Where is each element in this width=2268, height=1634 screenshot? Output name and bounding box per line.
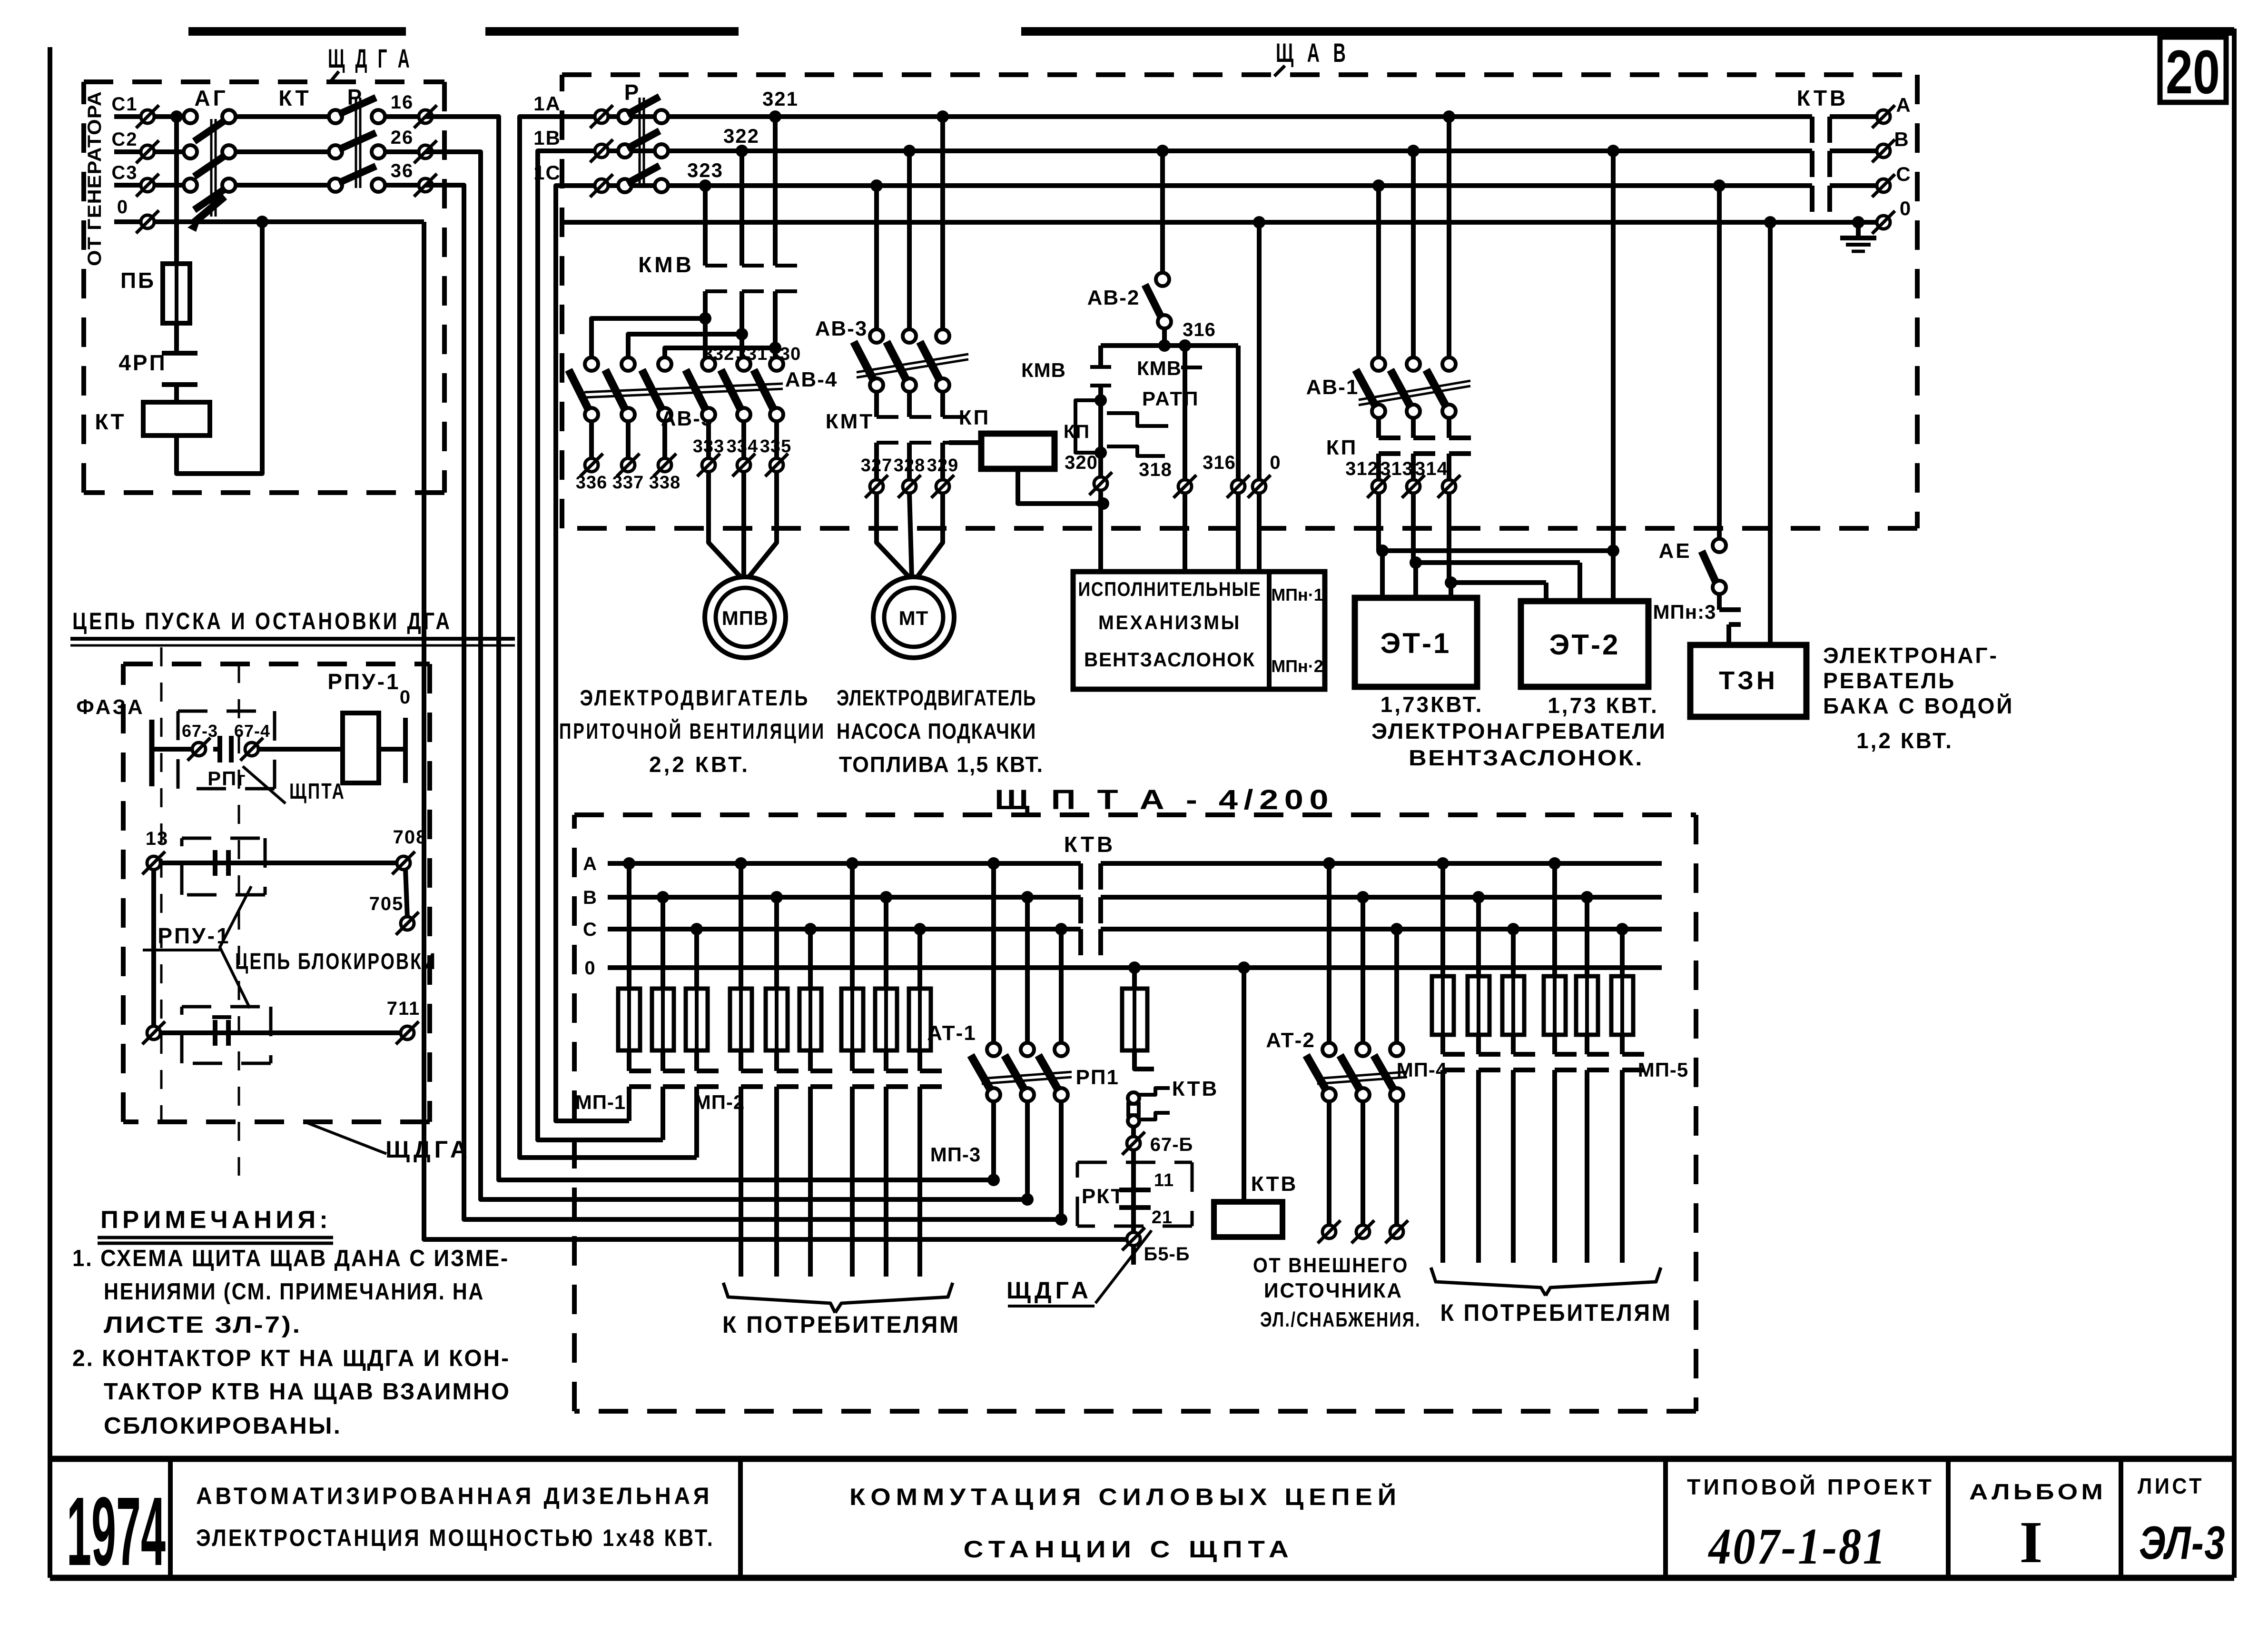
svg-text:АВ-1: АВ-1 [1306, 376, 1359, 399]
node fuse L6 [804, 923, 817, 935]
label 321 [762, 88, 799, 110]
breaker АВ-5 link [584, 384, 783, 397]
wire АВ-1 down b [1411, 151, 1416, 358]
label 323 [687, 159, 723, 181]
contact МП-45 pole 5 [1587, 1035, 1609, 1263]
wire АВ-4 out 1 [706, 421, 711, 458]
wire 0 to ТЗН [1764, 216, 1776, 645]
svg-text:337: 337 [612, 473, 644, 493]
svg-text:313: 313 [1380, 458, 1413, 479]
node АВ-1 c [1372, 179, 1385, 192]
svg-text:А: А [583, 853, 597, 874]
svg-text:1974: 1974 [67, 1477, 166, 1586]
label bus В [583, 887, 597, 908]
wire fuse R4 drop [1552, 863, 1557, 976]
wire 323 down [703, 186, 708, 266]
contactor Р pole 2 [329, 133, 385, 158]
wire 316 branch [1236, 346, 1241, 480]
wire АТ-2 a [1327, 863, 1331, 1043]
wire КТВ coil feed [1238, 961, 1250, 1202]
wire 1С bundle [556, 186, 629, 1121]
label 316 top [1183, 319, 1216, 340]
breaker АВ-1 pole 1 [1356, 357, 1385, 418]
title sheet no [2138, 1474, 2226, 1569]
wire 708 to 705 [405, 869, 407, 918]
switch АТ-2 pole 1 [1306, 1043, 1336, 1101]
svg-text:НЕНИЯМИ (СМ. ПРИМЕЧАНИЯ. НА: НЕНИЯМИ (СМ. ПРИМЕЧАНИЯ. НА [104, 1279, 484, 1305]
wire 320 to box [1098, 490, 1103, 572]
svg-text:ТЗН: ТЗН [1719, 666, 1778, 695]
bus 1А right [1830, 114, 1877, 119]
bus ЩПТА С [608, 927, 1662, 931]
svg-text:КТВ: КТВ [1172, 1077, 1219, 1100]
svg-text:705: 705 [369, 893, 404, 914]
wire АТ-1 out 3 [1059, 1101, 1064, 1219]
node fuse L1 [623, 857, 635, 870]
svg-text:336: 336 [576, 473, 607, 493]
svg-text:312: 312 [1345, 458, 1379, 479]
breaker АВ-3 pole 2 [887, 329, 916, 392]
breaker АВ-4 pole 2 [721, 357, 750, 421]
panel label ЩПТА-4/200 [995, 784, 1334, 815]
svg-text:0: 0 [584, 958, 595, 979]
contactor КТВ А [1812, 117, 1830, 143]
terminal 67-4 [234, 721, 270, 761]
label АВ-1 [1306, 376, 1359, 399]
wire АГ to Р row3 [235, 183, 335, 188]
label МПн1 [1271, 585, 1323, 604]
wire dist 3 [665, 348, 775, 358]
label КТВ right [1797, 86, 1849, 110]
svg-text:АГ: АГ [194, 86, 228, 110]
svg-text:1. СХЕМА ЩИТА ЩАВ ДАНА С ИЗМЕ: 1. СХЕМА ЩИТА ЩАВ ДАНА С ИЗМЕ- [72, 1246, 509, 1271]
panel ЩДГА dashed box [84, 82, 444, 493]
svg-text:АВ-4: АВ-4 [785, 368, 838, 391]
svg-text:АЕ: АЕ [1658, 539, 1691, 563]
wire 322 down [740, 151, 744, 266]
wire АГ to Р row2 [235, 149, 335, 154]
switch АТ-1 link [982, 1072, 1072, 1084]
svg-text:КП: КП [1064, 421, 1090, 442]
svg-text:К ПОТРЕБИТЕЛЯМ: К ПОТРЕБИТЕЛЯМ [722, 1311, 960, 1338]
label АГ [194, 86, 228, 110]
terminal 13b [142, 1021, 165, 1044]
wire fuse L2 drop [661, 897, 665, 989]
label КТВ aux [1172, 1077, 1219, 1100]
svg-text:26: 26 [391, 127, 414, 148]
label КП loop [1064, 421, 1090, 442]
bus 1С [608, 183, 1812, 188]
contact МП-1 pole 1 [629, 1050, 651, 1121]
svg-text:323: 323 [687, 159, 723, 181]
svg-text:С: С [583, 919, 597, 940]
svg-text:АЛЬБОМ: АЛЬБОМ [1969, 1479, 2106, 1504]
svg-text:ОТ ГЕНЕРАТОРА: ОТ ГЕНЕРАТОРА [84, 91, 105, 266]
node 322 [736, 145, 748, 157]
contact МП-45 pole 1 [1443, 1035, 1465, 1263]
wire АТ-2 c [1394, 929, 1399, 1043]
svg-text:АТ-2: АТ-2 [1266, 1029, 1315, 1052]
panel label ЩАВ [1274, 38, 1350, 76]
svg-text:ЭЛ-3: ЭЛ-3 [2139, 1516, 2226, 1569]
bus 0 ЩАВ [562, 220, 1877, 225]
terminal ext 2 [1351, 1220, 1374, 1243]
fuse L8 [875, 989, 897, 1050]
label АВ-2 [1087, 286, 1140, 309]
terminal 1А [590, 105, 613, 128]
svg-text:КП: КП [959, 406, 990, 429]
svg-text:БАКА С ВОДОЙ: БАКА С ВОДОЙ [1823, 693, 2014, 718]
label КП contact [1326, 436, 1358, 459]
node fuse L2 [657, 891, 669, 903]
switch АТ-2 pole 3 [1374, 1043, 1403, 1101]
node dist 1 [699, 312, 711, 325]
node АВ-3 c [870, 179, 883, 192]
switch АТ-2 link [1317, 1072, 1407, 1084]
leader РПУ-1 contacts [143, 886, 251, 1008]
wire fuse R1 drop [1440, 863, 1445, 976]
svg-text:АВ-2: АВ-2 [1087, 286, 1140, 309]
svg-text:1,2 КВТ.: 1,2 КВТ. [1856, 728, 1953, 753]
breaker АВ-1 pole 2 [1390, 357, 1420, 418]
svg-text:0: 0 [1270, 452, 1281, 473]
node АТ-2 c [1390, 923, 1403, 935]
leader ЩПТА [243, 766, 345, 803]
wire АВ-3 down c [874, 186, 879, 330]
switch Р pole 1 [618, 97, 668, 123]
fuse R1 [1432, 976, 1454, 1035]
label РПУ-1 top [327, 669, 400, 694]
contact 4РП [162, 353, 197, 385]
label РПУ-1 mid [158, 923, 230, 948]
label 1С [533, 161, 561, 184]
caption к потребителям right [1440, 1299, 1672, 1326]
svg-text:ИСТОЧНИКА: ИСТОЧНИКА [1264, 1279, 1403, 1302]
switch Р pole 2 [618, 131, 668, 158]
relay coil РПУ-1 [343, 713, 379, 783]
svg-text:СТАНЦИИ С ЩПТА: СТАНЦИИ С ЩПТА [964, 1536, 1294, 1563]
box исполнительные [1073, 572, 1325, 689]
contact РПУ-1 b [212, 1017, 231, 1046]
svg-text:67-3: 67-3 [182, 721, 218, 741]
switch Р pole 3 [618, 166, 668, 192]
contactor КМТ pole 1 [877, 392, 898, 480]
section line a [160, 647, 163, 1122]
note 2 [72, 1346, 511, 1439]
wire row3 [160, 1030, 407, 1035]
svg-text:ВЕНТЗАСЛОНОК.: ВЕНТЗАСЛОНОК. [1409, 745, 1644, 770]
label КМВ [638, 252, 694, 277]
relay coil КТ [143, 402, 210, 436]
svg-text:МП-2: МП-2 [694, 1091, 745, 1113]
svg-text:316: 316 [1203, 452, 1236, 473]
fuse L3 [686, 989, 708, 1050]
wire 0 to box [1257, 493, 1262, 572]
wire АТ-1 c [1059, 929, 1064, 1043]
label МП-1 [575, 1091, 626, 1113]
bus 1С right [1830, 183, 1877, 188]
svg-text:ПБ: ПБ [120, 268, 156, 293]
contact МПн3 [1719, 594, 1741, 645]
caption ТЗН [1823, 643, 2014, 753]
node АТ-2 b [1357, 891, 1369, 903]
svg-text:МП-1: МП-1 [575, 1091, 626, 1113]
wire 13 down [151, 869, 156, 1033]
label C3 [111, 162, 138, 183]
fuse R3 [1502, 976, 1524, 1035]
wire КМТ to КП [949, 443, 981, 451]
label от генератора [84, 91, 105, 266]
contact КП 2 [1413, 418, 1435, 480]
terminal 329 [931, 475, 954, 498]
node 0 return [256, 216, 268, 228]
wire fuse R3 drop [1511, 929, 1516, 976]
brace consumers right [1431, 1268, 1661, 1296]
svg-text:РПУ-1: РПУ-1 [327, 669, 400, 694]
box цепь пуска dashed [123, 664, 430, 1122]
svg-text:В: В [583, 887, 597, 908]
svg-text:4РП: 4РП [118, 350, 167, 375]
svg-text:КТ: КТ [278, 86, 311, 110]
wire Б5Б down [1131, 1246, 1136, 1265]
svg-text:КП: КП [1326, 436, 1358, 459]
wire to 67Б [1131, 1127, 1136, 1137]
label МП-2 [694, 1091, 745, 1113]
svg-text:С2: С2 [111, 129, 138, 150]
caption электронагреватели [1371, 719, 1666, 770]
fuse L1 [618, 989, 640, 1050]
svg-text:ЦЕПЬ ПУСКА И ОСТАНОВКИ ДГА: ЦЕПЬ ПУСКА И ОСТАНОВКИ ДГА [72, 608, 452, 634]
contact МП-2 pole 3 [810, 1050, 832, 1277]
svg-text:Б5-Б: Б5-Б [1144, 1244, 1190, 1265]
box РПУ-1 contact a [182, 838, 265, 895]
labels 333 334 335 [693, 436, 791, 456]
heater box ТЗН [1690, 645, 1806, 717]
label АВ-4 [785, 368, 838, 391]
node wire 316 [1101, 339, 1238, 352]
label КТ coil [95, 409, 126, 434]
svg-text:320: 320 [1065, 452, 1098, 473]
caption к потребителям left [722, 1311, 960, 1338]
svg-text:АТ-1: АТ-1 [927, 1021, 976, 1045]
wire fuse R6 drop [1620, 929, 1625, 976]
node fuse R5 [1581, 891, 1593, 903]
terminal В [1872, 128, 1909, 162]
svg-text:РКТ: РКТ [1082, 1185, 1124, 1208]
terminal 314 [1438, 475, 1460, 498]
title project name [196, 1483, 715, 1551]
wire 26 bundle [425, 152, 1034, 1206]
node dist 2 [736, 328, 748, 340]
text исполнительные [1078, 578, 1262, 671]
label C2 [111, 129, 138, 150]
node fuse R1 [1437, 857, 1449, 870]
bus 1А [608, 114, 1812, 119]
wire КП to 320 [1018, 469, 1109, 510]
svg-text:1,73 КВТ.: 1,73 КВТ. [1548, 693, 1659, 718]
svg-text:ЛИСТ: ЛИСТ [2138, 1474, 2204, 1498]
wire 0 bundle [424, 222, 1126, 1239]
contactor КТВ bus А [1081, 863, 1101, 890]
labels 332 331 330 [703, 344, 801, 364]
title year 1974 [67, 1477, 166, 1586]
wire coil to 0 [379, 747, 405, 752]
wire АВ-5 out 2 [626, 421, 631, 458]
svg-text:С1: С1 [111, 94, 138, 115]
leader ЩДГА РКТ [1006, 1230, 1152, 1306]
fuse L6 [799, 989, 821, 1050]
sheet number box 20 [2160, 37, 2226, 107]
terminal 0b [1248, 475, 1271, 498]
wire fuse L9 drop [917, 929, 922, 989]
svg-text:К ПОТРЕБИТЕЛЯМ: К ПОТРЕБИТЕЛЯМ [1440, 1299, 1672, 1326]
terminal 26 [391, 127, 437, 163]
fuse L9 [909, 989, 931, 1050]
terminal Б5-Б [1122, 1228, 1190, 1265]
wire 1А bundle [520, 117, 697, 1158]
fuse L5 [766, 989, 788, 1050]
node fuse L5 [770, 891, 783, 903]
wire fuse R5 drop [1585, 897, 1589, 976]
wire 318 branch [1183, 346, 1187, 480]
title album [1969, 1479, 2106, 1575]
label РПг [207, 767, 247, 790]
wire АВ-5 out 3 [662, 421, 667, 458]
wire В to ЭТ-2 [1607, 145, 1619, 601]
svg-text:1,73КВТ.: 1,73КВТ. [1381, 692, 1484, 717]
wire 0 generator [114, 219, 424, 224]
label КМВ aux right [1137, 357, 1202, 379]
wire 13 row [160, 861, 404, 865]
label МП-3 [930, 1143, 981, 1166]
terminal 711 [387, 998, 421, 1044]
node АВ-3 b [903, 145, 916, 157]
terminal 335 [765, 454, 788, 476]
svg-text:ТОПЛИВА 1,5 КВТ.: ТОПЛИВА 1,5 КВТ. [839, 752, 1044, 777]
svg-text:ФАЗА: ФАЗА [76, 695, 145, 719]
svg-text:316: 316 [1183, 319, 1216, 340]
caption ЭТ-1 [1381, 692, 1484, 717]
labels 312 313 314 [1345, 458, 1448, 479]
terminal А [1872, 94, 1911, 128]
terminal 1С [590, 174, 613, 197]
svg-text:КТВ: КТВ [1251, 1172, 1298, 1196]
wire 0 branch ЩАВ [1253, 216, 1265, 480]
contactor АГ drive arrow [187, 197, 225, 232]
wire C3 [114, 183, 190, 188]
heater box ЭТ-2 [1521, 601, 1648, 687]
node АВ-3 a [937, 110, 949, 123]
svg-text:ОТ ВНЕШНЕГО: ОТ ВНЕШНЕГО [1253, 1254, 1409, 1277]
wire 4РП to КТ [174, 385, 179, 402]
wire АТ-1 b [1025, 897, 1030, 1043]
wire fuse L7 drop [850, 863, 855, 989]
terminal 36 [391, 160, 437, 197]
terminal С [1872, 163, 1911, 197]
breaker АВ-3 pole 1 [854, 329, 883, 392]
svg-text:407-1-81: 407-1-81 [1708, 1518, 1887, 1575]
terminal 334 [732, 454, 755, 476]
terminal 0 right [1872, 197, 1911, 234]
svg-text:РП1: РП1 [1076, 1066, 1119, 1089]
contact МП-45 pole 4 [1555, 1035, 1577, 1263]
svg-text:А: А [1896, 94, 1911, 116]
svg-text:0: 0 [1900, 197, 1911, 219]
node fuse L4 [735, 857, 747, 870]
svg-text:20: 20 [2166, 37, 2220, 107]
label 4РП [118, 350, 167, 375]
svg-text:16: 16 [391, 92, 414, 113]
svg-text:321: 321 [762, 88, 799, 110]
label bus А [583, 853, 597, 874]
label Р (ЩДГА) [347, 85, 363, 109]
caption МПВ [559, 685, 826, 777]
switch АТ-1 pole 1 [971, 1043, 1000, 1101]
svg-text:13: 13 [146, 828, 169, 849]
wire 318 to box [1183, 493, 1187, 572]
heading цепь пуска [70, 608, 515, 645]
svg-text:2. КОНТАКТОР КТ НА ЩДГА И КОН-: 2. КОНТАКТОР КТ НА ЩДГА И КОН- [72, 1346, 510, 1371]
label РП1 [1076, 1066, 1119, 1089]
svg-text:711: 711 [387, 998, 421, 1019]
relay coil КП [981, 434, 1055, 469]
terminal 338 [653, 454, 676, 476]
breaker АВ-1 link [1359, 381, 1470, 405]
svg-text:КМВ: КМВ [1021, 359, 1066, 381]
contact МП-2 pole 2 [777, 1050, 799, 1277]
terminal C3 [136, 174, 159, 197]
node АТ-1 b [1021, 891, 1034, 903]
breaker АВ-2 [1145, 273, 1171, 328]
wire row2 to 26 [385, 149, 425, 154]
contact МП-2 pole 1 [741, 1050, 763, 1277]
svg-text:329: 329 [927, 456, 958, 475]
svg-text:ЭЛЕКТРОНАГРЕВАТЕЛИ: ЭЛЕКТРОНАГРЕВАТЕЛИ [1371, 719, 1666, 743]
svg-text:КТВ: КТВ [1064, 832, 1116, 857]
svg-text:1С: 1С [533, 161, 561, 184]
svg-text:МПн·1: МПн·1 [1271, 585, 1323, 604]
contact МП-1 pole 3 [697, 1050, 719, 1158]
switch АТ-2 pole 2 [1340, 1043, 1370, 1101]
node АТ-1 c [1055, 923, 1067, 935]
contactor КМВ pole 2 [742, 266, 764, 364]
wire funnel МПВ [709, 471, 777, 578]
svg-text:67-4: 67-4 [234, 721, 270, 741]
node РП1 [1128, 961, 1141, 974]
label РАТП [1142, 387, 1199, 410]
wire 67Б to 11 [1131, 1150, 1136, 1190]
wire 1В bundle [538, 151, 663, 1140]
wire fuse L6 drop [808, 929, 813, 989]
terminal C1 [136, 105, 159, 128]
terminal 67-3 [182, 721, 218, 761]
wire АТ-1 a [991, 863, 996, 1043]
terminal 705 [369, 893, 419, 935]
contact МП-45 pole 6 [1622, 1035, 1644, 1263]
wire dist 1 [592, 318, 705, 358]
label АТ-1 [927, 1021, 976, 1045]
contact МП-3 pole 3 [920, 1050, 942, 1277]
label АВ-3 [815, 317, 868, 340]
box РКТ dashed [1077, 1162, 1192, 1226]
svg-text:РПг: РПг [207, 767, 247, 790]
svg-text:АВ-3: АВ-3 [815, 317, 868, 340]
terminal ext 3 [1385, 1220, 1408, 1243]
contactor Р pole 1 [329, 98, 385, 123]
terminal 67-Б [1122, 1132, 1193, 1155]
contact МП-3 pole 1 [852, 1050, 874, 1277]
svg-text:1А: 1А [533, 92, 561, 115]
